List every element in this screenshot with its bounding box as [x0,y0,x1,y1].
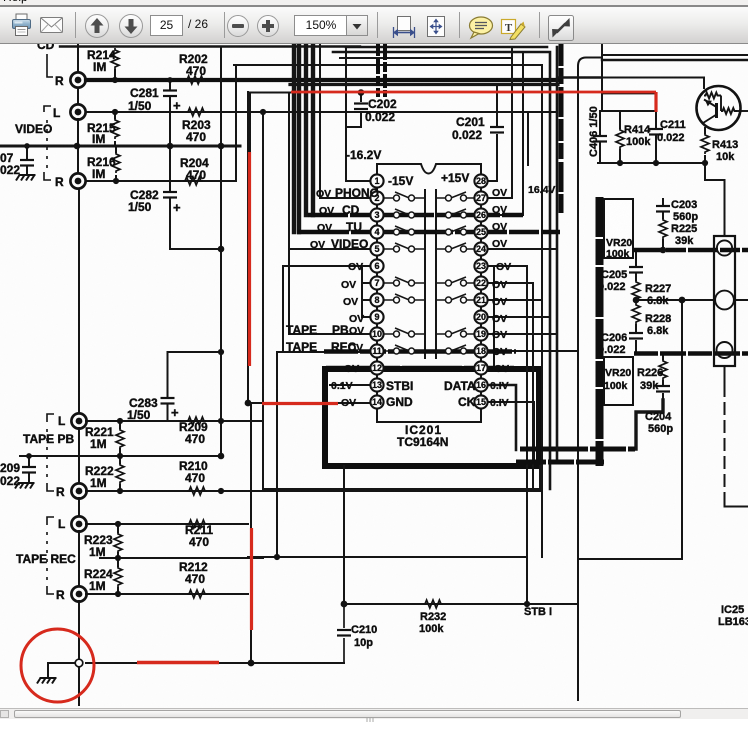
resistor R413 [701,133,709,154]
node dot y352 x221 [218,349,224,355]
switch row11 left [384,345,426,352]
wire VIDEO R row y181 [86,180,236,182]
node dot y92 C202 [358,89,365,96]
wire x542 upper [541,65,543,300]
capacitor C206 plates [629,333,643,339]
wire C204 elbow [636,400,663,449]
wire x527 vertical [526,266,528,604]
resistor R203 [186,108,206,116]
wire vertical bus x251 lower [250,403,252,663]
wire y559 row [578,558,682,560]
switch row26 right [436,209,475,216]
resistor R212 [187,590,207,598]
node dot y300 x636 [633,297,640,304]
red annotation line top horizontal [291,91,656,94]
wire row7 stub [362,282,370,284]
node dot y558 x118 [115,555,121,561]
node dot y557 x277 [274,554,280,560]
resistor R215 [111,118,119,139]
wire x289 video loop [288,94,290,334]
capacitor C283 plates [161,398,175,404]
ground main bottom [37,678,57,684]
wire R414 branch [600,111,656,163]
wire row9 stub [362,316,370,318]
capacitor C210 plates [337,630,351,636]
switch row7 left [384,277,426,284]
capacitor C282 stem [169,146,171,249]
node dot y421 x221 [218,418,224,424]
wire TAPE REC L row y524 [86,523,248,525]
connector jack TAPE REC R [71,586,86,601]
node dot y146 x221 [218,143,225,150]
heavy band row18 y351 [324,349,516,354]
wire long vertical x578 with curved top [578,58,602,701]
bracket TAPE PB L [47,414,54,422]
resistor R221 [116,428,124,449]
switch contact dots right column [446,195,452,201]
wire vertical bus x221 [220,47,222,456]
wire R223 stubs [117,524,119,558]
wire TU row vertical [294,44,299,232]
wire R216 stubs [115,146,117,181]
wire y489 row [263,466,540,489]
resistor R222 [116,463,124,484]
wire y300 row [636,299,748,301]
resistor R214 [111,48,119,69]
wire ground stub left [48,663,75,676]
capacitor C203 plates [656,206,670,212]
red annotation vertical lower x251.5 [250,528,253,630]
bracket VIDEO R [44,172,51,180]
wire row8 stub [362,299,370,301]
ground C209 [15,483,35,489]
node dot y491 x120 [117,488,123,494]
wire corner y506 [725,502,748,507]
wire VIDEO L to VIDEO R jack [77,119,79,173]
node dot y163 x620 [617,160,623,166]
heavy band y250 right [634,248,748,252]
wire x602 vertical [601,44,603,111]
switch row22 right [436,277,475,284]
wire pin13 STBI row [330,384,371,386]
heavy band y449 [520,447,635,452]
wire x344 below IC box [343,466,345,604]
wire right row20 stub [488,316,551,318]
wire VIDEO row y249 [289,248,370,250]
connector circle 3 [717,342,733,358]
op-amp IC201 top outline with notch [377,164,481,174]
node dot ground row x251 [248,660,255,667]
node dot C209 top [26,453,32,459]
capacitor C281 plates [163,91,177,97]
switch row27 right [436,192,475,199]
node dot y456 x120 [117,453,123,459]
wire TAPE REC R down to ground node [78,601,80,705]
wire vertical bus x248 upper [247,92,249,403]
wire R225 stubs [662,240,664,250]
wire TAPE PB R to TAPE REC L jack [78,498,80,516]
wire CD R jack drop from top [77,44,79,72]
wire R215 stubs [114,112,116,146]
wire x682 vertical [681,300,683,559]
capacitor C202 plates [354,104,368,110]
wire R222 stubs [119,456,121,491]
node dot R216 bottom [113,178,119,184]
capacitor C406 plates [593,136,607,142]
connector jack TAPE REC L [71,516,86,531]
heavy band y353 right [634,351,748,355]
connector circle 2 [715,291,734,310]
capacitor C211 plates [649,129,663,135]
node dot x263 y112 [260,109,266,115]
node dot GND row x248 [245,400,252,407]
wire y163 row [598,162,705,164]
resistor R227 [632,280,640,301]
connector block right [714,236,735,366]
wire TAPE REC node row y558 [100,557,263,559]
wire pin26 row [488,52,524,215]
capacitor C283 stem [167,352,169,421]
heavy band row17 y368 [326,366,514,371]
red annotation vertical mid x249.5 [248,152,251,366]
wire x528 drop from R203 row [527,112,529,165]
wire heavy bus y85 [290,83,558,86]
wire top full-width y60 [602,59,748,61]
wire R226 stubs [662,354,664,385]
wire C281 link x170 [169,112,171,146]
resistor R209 [186,417,206,425]
bracket TAPE REC L [47,517,54,525]
node dot y146 x77 [74,143,81,150]
wire R228 to C206 [635,325,637,351]
wire black under red y93.4 [602,92,655,94]
wire right row21 stub [488,299,543,301]
svg-text:T: T [505,22,513,34]
heavy band row TU y232 [297,230,560,235]
wire C283 link row y352 [168,351,222,353]
wire TAPE PB row y334 [289,333,370,335]
switch row10 left [384,328,426,335]
IC201 bottom bracket [377,409,481,422]
resistor R226 [659,359,667,380]
node dot y604 x527 [524,601,530,607]
node dot R209 right [218,488,224,494]
node dot C281 top [167,77,173,83]
wire right row17 stub [488,367,495,369]
switch row21 right [436,294,475,301]
heavy band row CD y215 [308,213,523,218]
capacitor C201 plates [490,127,504,133]
switch row2 left [384,192,426,199]
wire R413 stubs [704,128,706,163]
wire VIDEO R to TAPE PB L jack [78,189,80,413]
wire TAPE PB L row y421 [86,420,263,422]
wire pin24 row [488,248,558,250]
IC201 pin circles right 28-15 [474,174,487,187]
capacitor C209 stem [28,456,30,481]
resistor R223 [114,532,122,553]
switch row3 left [384,209,426,216]
resistor R202 [185,76,205,84]
wire TAPE REC R row y594 [86,593,248,595]
wire R224 stubs [117,558,119,594]
thick box around IC lower half [325,369,539,466]
capacitor C207 stem [26,146,28,173]
ground C207 [16,175,36,181]
resistor R216 [112,152,120,173]
connector jack TAPE PB R [71,483,86,498]
node dot y163 x705 [702,160,708,166]
wire center vline B [435,190,437,358]
capacitor C211 stem [655,112,657,163]
wire x236 vertical [235,65,237,181]
wire C203 stem [662,199,664,218]
wire CK row y402 [488,402,535,466]
switch row24 right [436,243,475,250]
wire x542 vertical [541,300,543,557]
resistor R211 [187,520,207,528]
capacitor C210 stem [343,604,345,663]
IC201 right edge through pins [480,174,482,408]
wire top loop y52 [333,52,550,489]
heavy vertical bus x561 [559,44,564,213]
wire R221 stubs [119,421,121,456]
wire C205 stem [635,250,637,280]
VR201 box [604,199,633,258]
transistor Q emitter arrow [705,100,712,106]
wire x533 vertical [532,283,534,489]
wire C282 link row y249 [170,248,221,250]
wire R214 stub [114,70,116,80]
wire STB row y604 [344,603,578,605]
red annotation circle around ground [21,629,94,702]
bracket TAPE REC R [47,586,54,594]
wire x250 upper stub [249,93,251,153]
connector jack VIDEO L [70,104,85,119]
wire TAPE REC row y351 [277,351,370,353]
capacitor C204 plates [656,386,670,392]
node dot y146 x170 [167,143,174,150]
heavy stub vertical x378 top [376,44,380,97]
wire CD top bus [60,45,360,47]
transistor Q (right top) [697,86,748,130]
wire CD row vertical [306,44,313,215]
node dot R214 bottom [112,77,118,83]
bracket TAPE REC dashes [46,532,48,581]
node dot y456 x221 [218,453,225,460]
wire bus y78 right extension [558,76,602,79]
wire pin27 row [488,47,513,198]
capacitor C281 stem [169,80,171,112]
heavy stub vertical x385 top [383,44,387,97]
switch row19 right [436,328,475,335]
connector circle 1 [717,240,732,255]
wire TAPE PB R row y491 long [86,490,540,492]
wire x362 vertical rows7-9 [361,266,363,317]
bracket VIDEO L [44,106,51,112]
wire right row22 stub [488,282,534,284]
wire loop y100 [250,92,292,94]
resistor R224 [114,566,122,587]
red annotation horizontal GND row [262,402,338,405]
wire top full-width y55 [602,54,748,56]
wire VIDEO L row y112 [86,111,557,113]
resistor R204 [183,177,203,185]
wire C201 drop [496,85,498,181]
bracket VIDEO dashes [46,120,48,170]
wire DATA row y385 [488,385,517,450]
wire top loop y65 [234,64,542,66]
wire right row19 stub [488,333,558,335]
wire heavy bus y80 [86,78,560,82]
connector jack CD R [70,72,85,87]
switch row5 left [384,243,426,250]
connector jack TAPE PB L [71,413,86,428]
wire row12 stub [354,367,370,369]
IC201 pin numbers [372,176,486,407]
wire GND row y403 [248,402,370,404]
node dot y300 x682 [679,297,686,304]
switch contact dots left column [394,195,400,201]
wire y163 to connector [705,163,725,236]
node open circle ground junction [75,659,83,667]
wire TAPE REC L to TAPE REC R jack [78,531,80,586]
wire vertical bus x277 [276,352,278,557]
wire vertical bus x263 [262,112,264,489]
wire row6 y266 [283,265,370,267]
wire pin28 +15V stub [488,180,498,182]
switch row8 left [384,294,426,301]
wire top loop y58 [340,57,512,59]
bracket TAPE PB R [47,483,54,491]
dashed wire x724 [724,385,726,502]
resistor R228 [632,303,640,324]
node dot y163 x656 [653,160,659,166]
capacitor C207 plates [20,160,34,166]
node dot y249 x221 [218,246,225,253]
heavy vertical bus x599 [596,197,604,466]
connector jack VIDEO R [70,173,85,188]
node dot y421 x120 [117,418,123,424]
resistor R225 [659,218,667,239]
capacitor C406 stem [599,111,601,163]
wire thick node row y146 [0,145,240,148]
wire PHONO row [320,44,371,198]
capacitor C282 plates [163,192,177,198]
node dot y524 x118 [115,521,121,527]
switch row25 right [436,226,475,233]
VR202 box [604,357,633,405]
wire right row18 stub [488,350,579,352]
capacitor C204 stem [662,394,664,400]
node dot y594 x118 [115,591,121,597]
wire TAPE PB L to TAPE PB R jack [78,428,80,483]
wire x283 vertical [282,266,284,352]
bracket TAPE PB dashes [46,429,48,479]
node dot R215 top [112,109,118,115]
node dot x344 y604 [341,601,348,608]
resistor R210 [187,487,207,495]
IC201 left edge through pins [376,174,378,408]
wire x494 vertical right rows [493,266,495,368]
red annotation horizontal ground row [137,661,219,664]
capacitor C209 plates [22,467,36,473]
wire CD R jack to VIDEO L jack [77,88,79,104]
wire right row23 stub [488,265,528,267]
wire y557 row [248,556,527,558]
wire top loop y47 [346,47,557,462]
wire node row y456 [20,455,221,457]
red annotation top right drop [654,92,657,112]
switch row18 right [436,345,475,352]
wire transistor feed y77 [602,78,704,89]
resistor R232 [423,600,443,608]
wire C202 drop [347,93,361,127]
switch row4 left [384,226,426,233]
wire ground row y663 [86,662,344,664]
capacitor C205 plates [629,267,643,273]
node dot y250 x663 [660,247,667,254]
wire connector bottom [724,366,726,383]
bracket CD R [47,54,53,77]
IC201 pin circles left 1-14 [370,174,487,408]
wire center vline A [424,190,426,358]
node dot C207 top [24,143,30,149]
wire R227 stub [635,299,637,301]
resistor R414 [616,128,624,149]
heavy band y462 [516,460,604,465]
wire pin1 left stub [346,47,371,181]
